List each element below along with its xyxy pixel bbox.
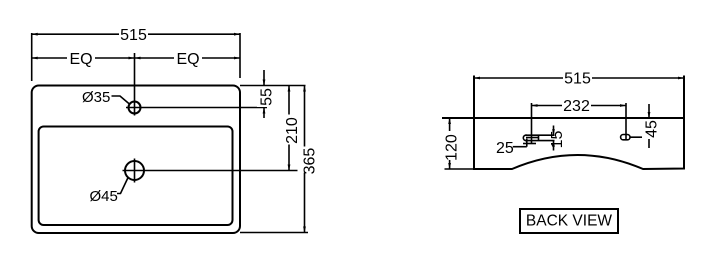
label 120 rotated xyxy=(442,131,456,160)
arrow 15 top (down) xyxy=(552,129,555,135)
keyhole bracket top line / 15 extension top xyxy=(525,134,555,136)
centerline vertical through faucet hole xyxy=(134,53,136,116)
keyhole bracket bottom line / 15 extension bottom xyxy=(525,140,555,142)
label 232 xyxy=(562,98,591,113)
svg-text:EQ: EQ xyxy=(69,51,92,68)
faucet hole crosshair horizontal xyxy=(126,107,143,109)
dimension line 45 lower tail xyxy=(648,137,650,148)
arrow 120 bottom (down) xyxy=(448,163,451,169)
dimension line 365 xyxy=(304,86,306,233)
label 45 rotated xyxy=(642,120,656,139)
label EQ right xyxy=(174,50,202,65)
dimension line 45 upper tail xyxy=(648,104,650,118)
extension line 232 right (down to fixing) xyxy=(625,103,627,140)
keyhole bracket right bar xyxy=(538,135,540,140)
arrow 210 top (up) xyxy=(288,86,291,92)
label 55 rotated xyxy=(257,87,271,107)
basin outer rim rectangle xyxy=(32,86,240,234)
basin inner bowl rectangle xyxy=(39,127,233,226)
leader for D35 label xyxy=(112,96,130,104)
label 515 xyxy=(119,27,148,42)
arrow EQ left-out xyxy=(32,57,38,60)
keyhole bracket inner vertical / 25 leader vertical xyxy=(526,139,528,147)
label 210 rotated xyxy=(282,115,296,145)
faucet hole circle D35 xyxy=(129,102,141,114)
leader for D45 label xyxy=(117,178,128,194)
extension line from capsule (45) xyxy=(630,136,653,138)
arrow 15 bottom (up) xyxy=(552,141,555,147)
svg-text:120: 120 xyxy=(443,134,460,161)
dimension line 210 xyxy=(288,86,290,171)
drain hole crosshair horizontal xyxy=(123,170,148,172)
arrow EQ left-in xyxy=(129,57,135,60)
svg-text:515: 515 xyxy=(120,27,147,44)
back panel outline xyxy=(474,76,684,170)
arrow 210 bottom (down) xyxy=(288,165,291,171)
label EQ left xyxy=(67,50,95,65)
arrow 515 back left xyxy=(474,77,480,80)
extension line from drain center (210) xyxy=(147,170,304,172)
extension line from rim bottom edge xyxy=(240,232,308,234)
drain hole circle D45 xyxy=(125,161,144,180)
svg-text:25: 25 xyxy=(496,140,514,157)
dimension line 232 xyxy=(532,105,627,107)
arrow 365 top (up) xyxy=(303,86,306,92)
back panel top edge xyxy=(442,117,684,119)
svg-text:365: 365 xyxy=(302,148,319,175)
arrow 515 right xyxy=(234,33,240,36)
arrow 232 right xyxy=(620,104,626,107)
svg-text:232: 232 xyxy=(563,98,590,115)
fixing hole capsule xyxy=(621,135,630,140)
arrow 515 left xyxy=(32,33,38,36)
extension line 232 left (down to bracket) xyxy=(531,103,533,144)
arrow 55 top (down) xyxy=(263,80,266,86)
dimension line 515 back xyxy=(474,77,684,79)
dimension line 120 xyxy=(449,118,451,169)
label 365 rotated xyxy=(298,147,312,173)
dimension line 15 upper tail xyxy=(553,126,555,136)
arrow 515 back right xyxy=(678,77,684,80)
arrow 55 bottom (up) xyxy=(263,108,266,114)
arrow 232 left xyxy=(532,104,538,107)
keyhole bracket flange xyxy=(523,143,536,145)
keyhole bracket middle line xyxy=(526,137,539,139)
drain hole crosshair vertical xyxy=(134,159,136,183)
keyhole bracket left cap xyxy=(523,135,527,140)
arrow 45 top (down) xyxy=(648,112,651,118)
BACK VIEW title box xyxy=(520,209,618,233)
svg-text:BACK VIEW: BACK VIEW xyxy=(526,213,612,230)
extension line right for 515 xyxy=(239,33,241,78)
dimension line 55 lower tail xyxy=(263,108,265,119)
dimension line 515 xyxy=(32,33,240,35)
svg-text:Ø45: Ø45 xyxy=(90,188,118,205)
extension line left for 515 xyxy=(31,33,33,81)
leader for 25 xyxy=(513,146,527,148)
bottom extension line left (120) xyxy=(445,168,475,170)
svg-text:515: 515 xyxy=(564,71,591,88)
extension line from rim top edge xyxy=(240,85,306,87)
dimension line EQ EQ xyxy=(32,57,240,59)
svg-text:EQ: EQ xyxy=(176,51,199,68)
svg-text:45: 45 xyxy=(644,120,661,138)
svg-text:210: 210 xyxy=(284,117,301,144)
extension line from faucet hole center (55) xyxy=(143,107,267,109)
label 515 back xyxy=(563,71,592,86)
dimension line 15 lower tail xyxy=(553,141,555,151)
dimension line 55 upper tail xyxy=(263,70,265,86)
arrow 45 bottom (up) xyxy=(648,131,651,137)
arrow EQ right-in xyxy=(135,57,141,60)
arrow 365 bottom (down) xyxy=(303,227,306,233)
svg-text:55: 55 xyxy=(259,88,276,106)
arrow EQ right-out xyxy=(234,57,240,60)
svg-text:15: 15 xyxy=(549,131,566,149)
svg-text:Ø35: Ø35 xyxy=(82,89,110,106)
arrow 120 top (up) xyxy=(448,118,451,124)
